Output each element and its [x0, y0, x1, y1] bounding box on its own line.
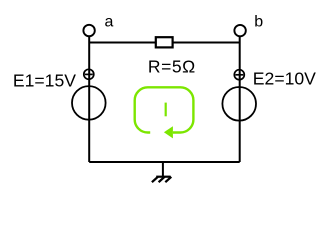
svg-text:E2=10V: E2=10V: [253, 69, 316, 89]
wire right vertical (b to bottom-right corner): [239, 37, 241, 162]
voltage source E1: [72, 86, 106, 120]
node b label: [254, 14, 263, 31]
source E1 polarity plus: [84, 69, 94, 79]
source E1 value label: [13, 70, 76, 90]
source E2 polarity plus: [234, 70, 244, 80]
resistor R: [156, 37, 173, 47]
node a label: [105, 13, 114, 30]
wire bottom: [89, 161, 240, 163]
svg-text:a: a: [105, 13, 114, 30]
svg-text:R=5Ω: R=5Ω: [148, 57, 196, 77]
terminal a: [83, 25, 94, 36]
svg-text:E1=15V: E1=15V: [13, 70, 76, 90]
current loop I (mesh current arrow): [135, 87, 194, 138]
wire top left segment (node a to resistor): [89, 42, 155, 44]
ground: [152, 162, 171, 182]
voltage source E2: [222, 87, 256, 121]
current label I: [165, 103, 167, 117]
wire left vertical (a to bottom-left corner): [88, 37, 90, 162]
wire top right segment (resistor to node b): [173, 42, 240, 44]
svg-text:b: b: [254, 14, 263, 31]
source E2 value label: [253, 69, 316, 89]
resistor value label R=5Ω: [148, 57, 196, 77]
terminal b: [234, 25, 245, 36]
